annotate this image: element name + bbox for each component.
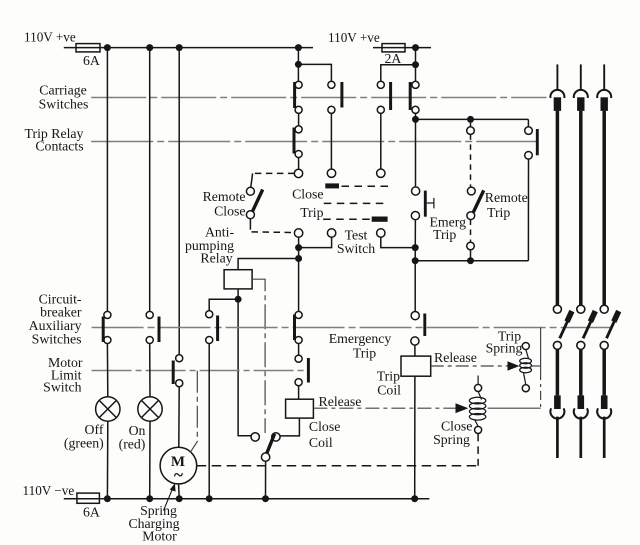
svg-text:Contacts: Contacts — [35, 139, 83, 154]
svg-text:On: On — [129, 423, 146, 438]
svg-text:Release: Release — [319, 394, 362, 409]
svg-text:Emergency: Emergency — [329, 331, 392, 346]
node junction B2 on -ve bus — [146, 495, 153, 502]
svg-text:Coil: Coil — [377, 383, 401, 398]
node junction A1 on +ve bus — [104, 44, 111, 51]
wire: rail A lower — [106, 343, 108, 396]
wire: rail A upper (lamp Off circuit) — [106, 48, 108, 312]
node junction L4 — [412, 244, 419, 251]
node junction C1 on +ve bus — [176, 44, 183, 51]
node junction L2 — [412, 61, 419, 68]
aux switch on rail D — [206, 311, 213, 318]
svg-text:Switch: Switch — [43, 380, 81, 395]
node junction A2 on -ve bus — [104, 495, 111, 502]
svg-text:Switch: Switch — [337, 241, 375, 256]
node junction G4 relay feed — [295, 255, 302, 262]
svg-text:(red): (red) — [119, 437, 146, 453]
node junction G2 — [295, 61, 302, 68]
node junction L1 — [412, 44, 419, 51]
svg-text:Close: Close — [292, 187, 323, 202]
wire: top-right branch to remote trip and trip relay K2 — [416, 118, 529, 120]
wire: rail C to motor — [178, 387, 180, 448]
wire: trip linkage dashes — [323, 218, 371, 220]
wire: carriage switches dash-dot rail — [91, 97, 546, 99]
svg-text:Switches: Switches — [39, 97, 89, 112]
svg-text:Carriage: Carriage — [39, 83, 87, 98]
svg-text:110V +ve: 110V +ve — [328, 30, 380, 45]
wire: -ve bus — [64, 498, 430, 500]
wire: rail C upper (motor circuit) — [178, 48, 180, 355]
wire: rail I down — [380, 113, 382, 169]
trip linkage black block — [372, 217, 388, 222]
node junction J2 — [467, 257, 474, 264]
wire: mech boundary vertical — [540, 327, 542, 371]
svg-text:(green): (green) — [64, 436, 104, 452]
wire: motor limit switch dash-dot rail — [92, 370, 308, 372]
wire: rail L down to emerg trip — [415, 113, 417, 187]
svg-text:Spring: Spring — [486, 341, 523, 356]
svg-text:6A: 6A — [83, 504, 100, 519]
spring limit switch on rail G — [295, 355, 302, 362]
svg-text:Trip: Trip — [353, 346, 376, 361]
wire: motor limit mech link dash-dot — [190, 371, 197, 453]
wire: rail G between switches — [298, 113, 300, 126]
wire: rail L emerg to junction — [414, 220, 416, 261]
node junction L5 — [412, 257, 419, 264]
svg-text:Remote: Remote — [203, 189, 246, 204]
close coil box — [286, 399, 314, 418]
wire: rail G top segment — [297, 48, 299, 82]
svg-text:Spring: Spring — [433, 432, 470, 447]
svg-text:110V −ve: 110V −ve — [23, 483, 75, 498]
trip coil box — [414, 345, 416, 356]
svg-text:110V +ve: 110V +ve — [24, 30, 76, 45]
wire: test switch H to G — [299, 237, 332, 247]
wire: trip group bus — [415, 260, 528, 262]
node: remote close lower contact on rail G — [294, 229, 302, 237]
wire: pump contact to -ve bus — [265, 461, 267, 498]
wire: release line after trip spring — [532, 365, 541, 367]
svg-text:Motor: Motor — [142, 529, 177, 544]
arrow to motor — [164, 487, 174, 511]
svg-text:Close: Close — [214, 203, 245, 218]
wire: relay mech link dash-dot — [252, 279, 265, 433]
wire: rail D lower to bus — [208, 343, 210, 498]
wire: test switch I to L — [381, 237, 415, 247]
emergency trip button (upper) — [412, 187, 420, 195]
svg-text:Switches: Switches — [32, 332, 82, 347]
fuse F3 6A — [77, 493, 100, 503]
wire: rail K down — [527, 159, 529, 261]
wire: release line after close spring — [488, 407, 541, 409]
wire: relay box bottom to aux switch D — [209, 289, 238, 311]
motor limit switch on rail C — [176, 355, 183, 362]
trip relay contact K2 — [527, 119, 529, 127]
node: trip linkage upper contact I — [377, 169, 385, 177]
carriage switch S2 on rail H — [328, 81, 335, 88]
node junction C2 on -ve bus — [176, 495, 183, 502]
svg-text:6A: 6A — [83, 53, 100, 68]
remote close switch — [253, 172, 295, 174]
wire: branch G2 to rail H — [298, 64, 331, 81]
svg-text:Trip: Trip — [300, 205, 323, 220]
node junction B1 on +ve bus — [146, 44, 153, 51]
trip spring — [522, 342, 529, 349]
wire: rail B lower — [149, 343, 151, 396]
wire: rail G limit to close coil — [298, 386, 300, 400]
wire: long mech dashed link to motor — [197, 465, 478, 467]
wire: rail G aux to limit — [298, 343, 300, 355]
svg-text:Release: Release — [434, 350, 477, 365]
node junction L6 on -ve bus — [411, 495, 418, 502]
test switch contact on rail H — [327, 229, 335, 237]
wire: branch L2 to rail I — [381, 65, 416, 82]
lamp Off green — [96, 397, 120, 421]
phase busbar 2 — [574, 64, 595, 458]
fuse F2 2A — [382, 44, 405, 52]
svg-text:2A: 2A — [385, 51, 402, 66]
node junction G1 on +ve bus — [295, 44, 302, 51]
wire: close linkage dashes — [342, 185, 390, 187]
wire: rail L to emergency trip — [414, 261, 416, 312]
node junction G3 — [295, 244, 302, 251]
wire: rail B upper (lamp On circuit) — [149, 48, 151, 312]
wire: middle linkage dashes — [324, 202, 388, 204]
svg-text:Close: Close — [309, 419, 340, 434]
carriage switch S4 on rail L — [412, 81, 419, 88]
wire: motor to -ve bus — [178, 484, 181, 499]
wire: auxiliary switches dash-dot rail — [92, 327, 612, 329]
wire: relay feed — [238, 259, 299, 270]
wire: close release dash-dot with arrow — [313, 407, 456, 409]
close linkage black block — [325, 183, 339, 188]
trip relay contact K1 on rail G — [295, 126, 302, 133]
node: remote close upper contact — [294, 169, 302, 177]
node junction D2 on -ve bus — [206, 495, 213, 502]
node junction J1 — [467, 116, 474, 123]
phase busbar 1 — [550, 64, 572, 458]
wire: trip relay contacts dash-dot rail — [91, 141, 536, 143]
svg-text:Trip: Trip — [377, 369, 400, 384]
svg-text:Trip: Trip — [487, 205, 510, 220]
emergency trip switch (lower) — [411, 312, 419, 320]
wire: trip release dash-dot with arrow — [431, 365, 509, 367]
wire: close coil bottom to pump contact — [280, 418, 299, 436]
node junction F2 on -ve bus — [262, 495, 269, 502]
carriage switch S3 on rail I — [377, 81, 384, 88]
lamp On red — [138, 397, 162, 421]
aux switch on rail A — [104, 311, 111, 318]
test switch contact on rail I — [377, 229, 385, 237]
remote trip switch — [470, 123, 472, 127]
wire: rail E down to pump contact — [238, 299, 251, 435]
wire: +ve bus left stub — [64, 47, 313, 49]
svg-text:Remote: Remote — [485, 190, 528, 205]
wire: rail L from 2A fuse — [415, 48, 417, 82]
svg-text:Relay: Relay — [200, 251, 232, 266]
anti-pumping contact (close circuit) — [251, 433, 259, 441]
motor M spring charging — [160, 447, 197, 484]
node: close linkage upper contact H — [327, 169, 335, 177]
aux switch on rail B — [146, 311, 153, 318]
anti-pumping relay coil box — [224, 270, 252, 289]
wire: rail G remote-close lower to junctions — [298, 237, 300, 311]
fuse F1 6A — [76, 44, 100, 52]
close spring — [477, 376, 479, 385]
node junction E1 — [235, 296, 242, 303]
wire: 2A bus — [373, 47, 431, 49]
svg-text:Coil: Coil — [309, 435, 333, 450]
carriage switch S1 on rail G — [295, 81, 302, 88]
svg-text:Trip: Trip — [433, 227, 456, 242]
aux switch on rail G — [295, 311, 302, 318]
wire: close spring to mech dashed link — [477, 434, 479, 466]
node junction L3 — [412, 116, 419, 123]
svg-text:~: ~ — [174, 465, 183, 485]
wire: trip coil to -ve bus — [414, 376, 416, 499]
phase busbar 3 — [597, 64, 619, 458]
wire: rail H down to test gap — [330, 113, 332, 169]
